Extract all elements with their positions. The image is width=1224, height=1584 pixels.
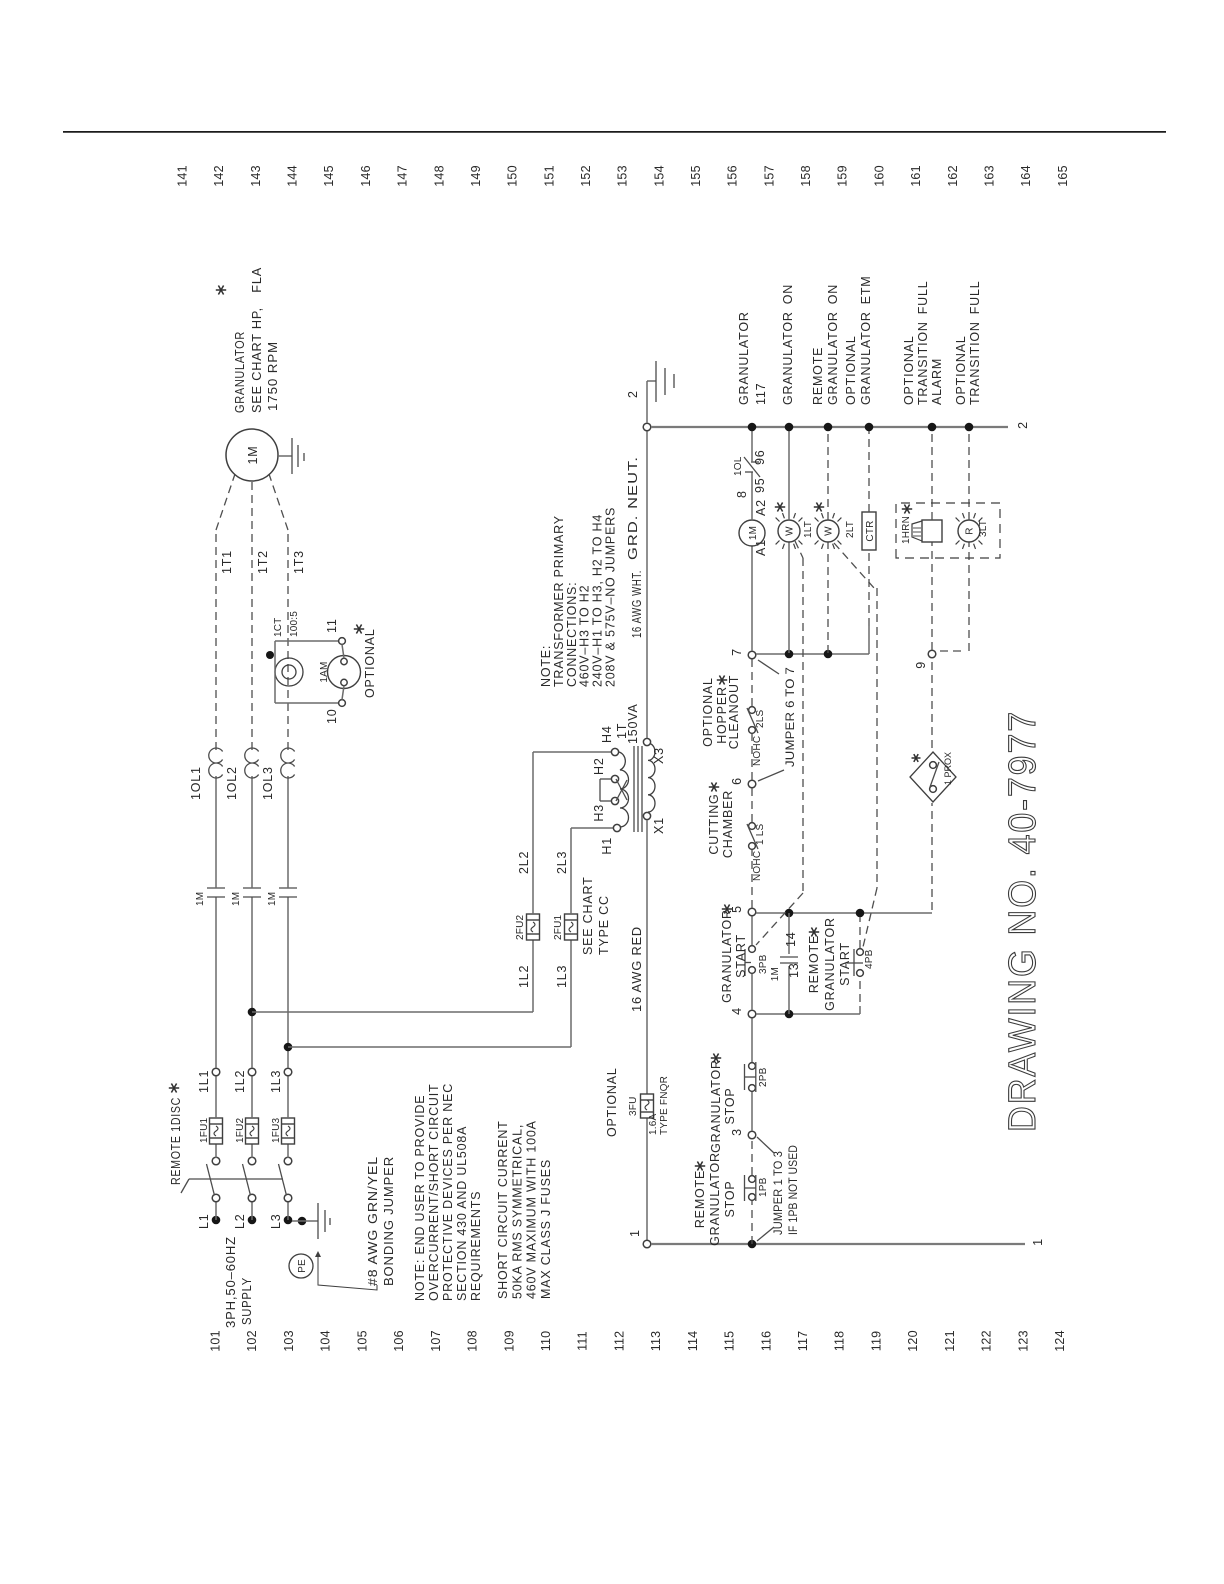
svg-text:2L2: 2L2 <box>517 851 531 874</box>
transformer 1T primary terminals H1 H3 H2 H4 <box>613 824 620 831</box>
note JUMPER 1 TO 3 IF 1PB NOT USED <box>757 1137 774 1153</box>
disconnect 1DISC pole L3 <box>284 1194 292 1202</box>
rail 2 <box>651 426 1008 428</box>
svg-text:W: W <box>824 526 835 536</box>
svg-text:115: 115 <box>723 1331 737 1352</box>
wire node4 to 3PB <box>751 974 753 1010</box>
svg-text:107: 107 <box>429 1330 443 1351</box>
fuse 1FU1 <box>210 1118 223 1144</box>
fuse 1FU3 <box>282 1118 295 1144</box>
svg-text:TRANSITION FULL: TRANSITION FULL <box>968 280 982 405</box>
svg-text:START: START <box>734 934 748 978</box>
horn 1HRN <box>922 520 942 542</box>
svg-text:123: 123 <box>1016 1330 1030 1351</box>
wire CT secondary bottom <box>274 686 276 703</box>
current transformer 1CT <box>275 658 303 686</box>
svg-text:NOTE: END USER TO PROVIDE: NOTE: END USER TO PROVIDE <box>413 1095 427 1301</box>
note JUMPER 6 TO 7 <box>758 660 779 674</box>
svg-text:OPTIONAL: OPTIONAL <box>844 335 858 405</box>
svg-text:1L2: 1L2 <box>517 965 531 988</box>
svg-text:146: 146 <box>359 165 373 186</box>
wire fuse to 1L1 <box>215 1076 217 1118</box>
svg-text:159: 159 <box>836 165 850 186</box>
wire 4PB branch <box>859 1006 861 1014</box>
svg-text:164: 164 <box>1019 165 1033 186</box>
svg-text:TRANSITION FULL: TRANSITION FULL <box>916 280 930 405</box>
svg-text:160: 160 <box>872 165 886 186</box>
junction rail2/horn <box>928 423 937 432</box>
svg-text:117: 117 <box>796 1331 810 1352</box>
svg-text:#8 AWG GRN/YEL: #8 AWG GRN/YEL <box>366 1156 380 1286</box>
junction bus/2LT <box>824 650 833 659</box>
svg-text:1M: 1M <box>770 967 781 981</box>
pushbutton 1PB remote granulator stop <box>749 1194 756 1201</box>
svg-text:1T1: 1T1 <box>220 550 234 574</box>
svg-text:151: 151 <box>542 165 556 186</box>
svg-text:1: 1 <box>1031 1238 1045 1246</box>
svg-text:1FU2: 1FU2 <box>235 1118 246 1143</box>
svg-text:BONDING JUMPER: BONDING JUMPER <box>382 1156 396 1286</box>
svg-text:1 PROX: 1 PROX <box>943 752 953 785</box>
svg-text:1750 RPM: 1750 RPM <box>266 341 280 411</box>
svg-text:117: 117 <box>754 383 768 405</box>
pilot light 2LT (W) <box>815 513 842 549</box>
svg-text:OVERCURRENT/SHORT CIRCUIT: OVERCURRENT/SHORT CIRCUIT <box>427 1084 441 1301</box>
wire tap 1L3 down <box>288 1046 571 1048</box>
disconnect 1DISC pole L1 <box>212 1194 220 1202</box>
svg-text:SUPPLY: SUPPLY <box>240 1277 254 1325</box>
wire rung 2LT (dashed) <box>827 542 829 653</box>
wire phase L1 entry <box>212 1216 221 1225</box>
wire fuse to 1L3 <box>287 1076 289 1118</box>
svg-text:114: 114 <box>686 1331 700 1352</box>
svg-text:GRANULATOR ON: GRANULATOR ON <box>781 284 795 405</box>
node 1L3 <box>284 1068 292 1076</box>
wire L1 to fuse <box>215 1144 217 1158</box>
contactor contact 1M (L3) <box>279 896 297 898</box>
node 3 <box>748 1131 756 1139</box>
fuse 1FU2 <box>246 1118 259 1144</box>
svg-text:1OL1: 1OL1 <box>189 766 203 800</box>
svg-text:TRANSFORMER PRIMARY: TRANSFORMER PRIMARY <box>552 515 566 687</box>
svg-text:NOHC: NOHC <box>752 736 763 766</box>
wire 1L3 to contactor <box>287 897 289 1068</box>
wire 2LT alternate (dashed) <box>834 543 874 588</box>
wire node7 to coil <box>751 546 753 651</box>
limit switch 2LS hopper cleanout NOHC <box>749 727 756 734</box>
wire fuse to 1L2 <box>251 1076 253 1118</box>
pushbutton 3PB granulator start <box>749 967 756 974</box>
svg-text:1M: 1M <box>195 892 206 906</box>
junction rail1 / rung <box>748 1240 757 1249</box>
svg-text:2FU2: 2FU2 <box>515 915 526 940</box>
ground (bonding earth) <box>317 1203 319 1239</box>
svg-text:JUMPER 1 TO 3: JUMPER 1 TO 3 <box>773 1151 785 1235</box>
svg-text:REQUIREMENTS: REQUIREMENTS <box>469 1191 483 1301</box>
svg-text:50KA RMS SYMMETRICAL,: 50KA RMS SYMMETRICAL, <box>510 1124 524 1299</box>
pushbutton 4PB remote granulator start <box>857 970 864 977</box>
node grd (rail 2 top) <box>643 423 651 431</box>
svg-text:1M: 1M <box>246 446 260 465</box>
wire node-4 bus <box>756 1013 860 1015</box>
svg-text:SHORT CIRCUIT CURRENT: SHORT CIRCUIT CURRENT <box>496 1120 510 1299</box>
svg-text:1FU1: 1FU1 <box>199 1118 210 1143</box>
svg-text:161: 161 <box>909 165 923 186</box>
svg-text:PE: PE <box>297 1259 308 1273</box>
svg-text:GRANULATOR: GRANULATOR <box>233 331 247 413</box>
svg-text:L3: L3 <box>269 1213 283 1229</box>
pilot light 3LT (R) <box>956 513 983 549</box>
svg-text:155: 155 <box>689 165 703 186</box>
wire rung 1LT <box>788 542 790 653</box>
svg-text:16 AWG WHT.: 16 AWG WHT. <box>630 570 644 638</box>
svg-text:4: 4 <box>730 1007 744 1015</box>
node 6 <box>748 780 756 788</box>
svg-text:2: 2 <box>1016 421 1030 429</box>
header rule <box>63 131 1166 132</box>
svg-text:OPTIONAL: OPTIONAL <box>954 335 968 405</box>
svg-text:NOHC: NOHC <box>752 851 763 881</box>
contactor coil 1M <box>739 520 765 546</box>
junction rail2/CTR <box>865 423 874 432</box>
wire rung horn (dashed) <box>931 542 933 650</box>
junction rail2/2LT <box>824 423 833 432</box>
svg-text:8: 8 <box>735 490 749 498</box>
svg-text:95: 95 <box>753 477 767 493</box>
svg-text:154: 154 <box>652 165 666 186</box>
terminal X3 <box>643 738 650 745</box>
svg-text:240V–H1 TO H3, H2 TO H4: 240V–H1 TO H3, H2 TO H4 <box>591 514 605 687</box>
disconnect 1DISC pole L2 <box>248 1194 256 1202</box>
elapsed time meter CTR <box>862 512 876 550</box>
wire 1L1 to contactor <box>215 897 217 1068</box>
svg-text:460V–H3 TO H2: 460V–H3 TO H2 <box>578 585 592 687</box>
svg-text:GRANULATOR: GRANULATOR <box>737 311 751 405</box>
svg-text:MAX CLASS J FUSES: MAX CLASS J FUSES <box>539 1159 553 1299</box>
contactor contact 1M (L2) <box>243 896 261 898</box>
svg-text:2PB: 2PB <box>758 1067 769 1087</box>
wire tap 1L2 down <box>252 1011 533 1013</box>
alternate jumper cross lines <box>616 779 627 800</box>
motor 1M <box>226 429 278 481</box>
wire bonding jumper <box>292 1220 318 1222</box>
svg-text:REMOTE: REMOTE <box>811 347 825 405</box>
wire 2L3 <box>570 828 572 914</box>
wire rung 3LT (dashed) <box>940 650 966 652</box>
terminal PE <box>289 1254 313 1278</box>
border rule (right edge of drawing) <box>63 131 1166 133</box>
svg-text:A2: A2 <box>754 499 768 516</box>
svg-text:GRANULATOR ETM: GRANULATOR ETM <box>859 276 873 406</box>
junction bus/aux <box>785 909 794 918</box>
svg-text:3LT: 3LT <box>978 520 989 537</box>
ground (motor frame earth) <box>278 455 292 457</box>
junction on L2 <box>248 1008 257 1017</box>
svg-text:1: 1 <box>628 1229 642 1237</box>
svg-text:CTR: CTR <box>865 520 876 541</box>
svg-text:3FU: 3FU <box>628 1097 639 1117</box>
svg-text:3: 3 <box>730 1128 744 1136</box>
pilot light 1LT (W) <box>776 513 803 549</box>
svg-text:108: 108 <box>466 1330 480 1351</box>
svg-text:TYPE FNQR: TYPE FNQR <box>659 1076 670 1135</box>
svg-text:104: 104 <box>319 1330 333 1351</box>
transformer primary winding <box>619 752 629 827</box>
svg-text:149: 149 <box>469 165 483 186</box>
svg-text:4PB: 4PB <box>864 949 875 969</box>
svg-text:157: 157 <box>762 165 776 186</box>
svg-text:H2: H2 <box>592 757 606 775</box>
svg-text:IF 1PB NOT USED: IF 1PB NOT USED <box>788 1145 800 1235</box>
wire node-5 bus <box>756 912 932 914</box>
svg-text:152: 152 <box>579 165 593 186</box>
svg-text:H3: H3 <box>592 804 606 822</box>
svg-text:TYPE CC: TYPE CC <box>597 895 611 955</box>
svg-text:101: 101 <box>209 1330 223 1351</box>
svg-text:L1: L1 <box>197 1213 211 1229</box>
svg-text:1L3: 1L3 <box>269 1070 283 1093</box>
svg-text:1AM: 1AM <box>319 661 330 682</box>
svg-text:145: 145 <box>322 165 336 186</box>
wire node3 to 2PB <box>751 1091 753 1131</box>
bonding tap junction <box>298 1217 307 1226</box>
svg-text:START: START <box>838 942 852 986</box>
terminal 11 <box>339 638 346 645</box>
transformer secondary winding X1-X3 <box>648 743 655 812</box>
node 1L1 <box>212 1068 220 1076</box>
svg-text:2: 2 <box>626 390 640 398</box>
svg-text:PROTECTIVE DEVICES PER NEC: PROTECTIVE DEVICES PER NEC <box>441 1083 455 1301</box>
svg-text:1.6A: 1.6A <box>648 1113 659 1135</box>
svg-text:3PH,50–60HZ: 3PH,50–60HZ <box>224 1236 238 1328</box>
fuse 2FU1 <box>565 914 578 940</box>
svg-text:NOTE:: NOTE: <box>539 645 553 687</box>
svg-text:5: 5 <box>730 905 744 913</box>
contactor contact 1M (L1) <box>207 896 225 898</box>
wire X3 white to rail 2 <box>646 431 648 738</box>
svg-text:REMOTE: REMOTE <box>693 1170 707 1228</box>
wire phase L2 entry <box>248 1216 257 1225</box>
junction bus/1LT <box>785 650 794 659</box>
svg-text:1OL3: 1OL3 <box>261 766 275 800</box>
wire node6 to 2LS (dashed) <box>751 734 753 780</box>
svg-text:9: 9 <box>914 661 928 669</box>
svg-text:1T3: 1T3 <box>292 550 306 574</box>
svg-text:120: 120 <box>906 1330 920 1351</box>
jumper H3 to H2 <box>600 800 611 802</box>
aux contact 1M 13-14 <box>780 962 798 964</box>
svg-text:1M: 1M <box>231 892 242 906</box>
junction rail2/1LT <box>785 423 794 432</box>
svg-text:OPTIONAL: OPTIONAL <box>701 677 715 747</box>
rail 1 <box>651 1243 1025 1245</box>
disconnect tie bar <box>189 1178 283 1180</box>
svg-text:1LT: 1LT <box>803 521 814 538</box>
svg-text:113: 113 <box>649 1331 663 1352</box>
svg-text:1CT: 1CT <box>273 618 284 638</box>
svg-text:GRD. NEUT.: GRD. NEUT. <box>626 456 640 560</box>
proximity switch 1PROX <box>931 803 933 910</box>
svg-text:GRANULATOR: GRANULATOR <box>708 1152 722 1246</box>
svg-text:6: 6 <box>730 777 744 785</box>
svg-text:X1: X1 <box>652 817 666 834</box>
svg-text:460V MAXIMUM WITH 100A: 460V MAXIMUM WITH 100A <box>525 1120 539 1299</box>
svg-text:163: 163 <box>982 165 996 186</box>
svg-text:H1: H1 <box>600 837 614 855</box>
svg-text:1FU3: 1FU3 <box>271 1118 282 1143</box>
svg-text:SEE CHART: SEE CHART <box>581 876 595 955</box>
svg-text:CLEANOUT: CLEANOUT <box>727 675 741 749</box>
svg-text:1L2: 1L2 <box>233 1070 247 1093</box>
wire 1L2 to contactor <box>251 897 253 1068</box>
svg-text:14: 14 <box>784 931 798 947</box>
wire X1 red to rail 1 <box>646 1118 648 1240</box>
svg-text:109: 109 <box>502 1330 516 1351</box>
svg-text:111: 111 <box>576 1331 590 1351</box>
svg-text:GRANULATOR ON: GRANULATOR ON <box>826 284 840 405</box>
node 1 (rail 1 top) <box>643 1240 651 1248</box>
wire CT secondary top <box>274 641 276 686</box>
svg-text:10: 10 <box>325 708 339 724</box>
svg-text:REMOTE: REMOTE <box>807 935 821 993</box>
svg-text:X3: X3 <box>652 747 666 764</box>
svg-text:158: 158 <box>799 165 813 186</box>
wire aux branch <box>788 966 790 1014</box>
svg-text:144: 144 <box>286 165 300 186</box>
svg-text:2L3: 2L3 <box>555 851 569 874</box>
wire 1L2 horizontal <box>532 940 534 1012</box>
junction rail2 / rung A <box>748 423 757 432</box>
wire 2L2 <box>532 752 534 914</box>
svg-text:L2: L2 <box>233 1213 247 1229</box>
svg-text:3PB: 3PB <box>758 954 769 974</box>
overload contact 1OL 95-96 <box>745 471 753 473</box>
svg-text:2LS: 2LS <box>755 709 766 728</box>
wire phase L3 entry <box>284 1216 293 1225</box>
svg-text:147: 147 <box>396 165 410 186</box>
svg-text:124: 124 <box>1053 1330 1067 1351</box>
svg-text:CUTTING: CUTTING <box>707 793 721 854</box>
svg-text:122: 122 <box>980 1330 994 1351</box>
svg-text:7: 7 <box>730 648 744 656</box>
svg-text:1L1: 1L1 <box>197 1070 211 1093</box>
svg-text:2LT: 2LT <box>845 521 856 538</box>
svg-text:11: 11 <box>325 618 339 633</box>
svg-text:1PB: 1PB <box>758 1177 769 1197</box>
wire rung CTR (dashed) <box>868 626 870 642</box>
svg-text:118: 118 <box>833 1331 847 1352</box>
svg-text:106: 106 <box>392 1330 406 1351</box>
wire node-7 bus <box>756 653 869 655</box>
svg-text:CONNECTIONS:: CONNECTIONS: <box>565 582 579 687</box>
wire 1T1 motor lead (dashed) <box>215 530 217 750</box>
junction bus/4PB <box>856 909 865 918</box>
svg-text:H4: H4 <box>600 725 614 743</box>
polarity dot for 1CT <box>266 651 274 659</box>
junction bus/aux13 <box>785 1010 794 1019</box>
svg-text:SEE CHART HP, FLA: SEE CHART HP, FLA <box>250 267 264 413</box>
svg-text:208V & 575V–NO JUMPERS: 208V & 575V–NO JUMPERS <box>604 507 618 687</box>
svg-text:150: 150 <box>506 165 520 186</box>
svg-text:OPTIONAL: OPTIONAL <box>605 1067 619 1137</box>
svg-text:R: R <box>965 527 976 534</box>
overload heater 1OL2 <box>245 748 259 778</box>
wire to overload <box>251 776 253 888</box>
node 4 <box>748 1010 756 1018</box>
svg-text:16 AWG RED: 16 AWG RED <box>630 926 644 1012</box>
svg-text:162: 162 <box>946 165 960 186</box>
svg-text:OPTIONAL: OPTIONAL <box>902 335 916 405</box>
svg-text:ALARM: ALARM <box>930 358 944 405</box>
svg-text:OPTIONAL: OPTIONAL <box>363 628 377 698</box>
svg-text:GRANULATOR: GRANULATOR <box>720 909 734 1003</box>
node 9 <box>928 650 936 658</box>
svg-text:143: 143 <box>249 165 263 186</box>
svg-text:1HRN: 1HRN <box>901 516 912 544</box>
svg-text:112: 112 <box>612 1331 626 1352</box>
transformer core <box>633 746 635 832</box>
ammeter 1AM <box>328 656 361 689</box>
svg-text:13: 13 <box>787 962 801 978</box>
svg-text:1M: 1M <box>267 892 278 906</box>
overload heater 1OL3 <box>281 748 295 778</box>
wire node5 to 1LS (dashed) <box>751 850 753 908</box>
node 7 <box>748 651 756 659</box>
wire L3 to fuse <box>287 1144 289 1158</box>
svg-text:102: 102 <box>245 1330 259 1351</box>
wire to overload <box>215 776 217 888</box>
svg-text:1L3: 1L3 <box>555 965 569 988</box>
terminal 10 <box>339 700 346 707</box>
svg-text:DRAWING NO. 40-7977: DRAWING NO. 40-7977 <box>1002 710 1044 1132</box>
wire 1L3 horizontal <box>570 940 572 1047</box>
svg-text:165: 165 <box>1056 165 1070 186</box>
svg-text:1 LS: 1 LS <box>755 823 766 845</box>
svg-text:105: 105 <box>355 1330 369 1351</box>
svg-text:141: 141 <box>176 165 190 186</box>
svg-text:1OL2: 1OL2 <box>225 766 239 800</box>
svg-text:156: 156 <box>726 165 740 186</box>
leader to bonding note <box>318 1254 377 1290</box>
svg-text:116: 116 <box>759 1331 773 1352</box>
wire 1LT alternate (dashed) <box>795 541 803 558</box>
fuse 2FU2 <box>527 914 540 940</box>
optional alarm enclosure (dashed box) <box>896 503 1000 558</box>
svg-text:150VA: 150VA <box>626 703 640 744</box>
svg-text:103: 103 <box>282 1330 296 1351</box>
terminal X1 <box>643 812 650 819</box>
wire rung A dashed (1PB remote stop branch) <box>751 1201 753 1244</box>
junction on L3 <box>284 1043 293 1052</box>
svg-text:STOP: STOP <box>723 1180 737 1217</box>
svg-text:110: 110 <box>539 1331 553 1352</box>
svg-text:SECTION 430 AND UL508A: SECTION 430 AND UL508A <box>455 1126 469 1301</box>
wire coil to OL contact <box>751 472 753 520</box>
pushbutton 2PB granulator stop <box>749 1085 756 1092</box>
svg-text:W: W <box>785 526 796 536</box>
svg-text:142: 142 <box>212 165 226 186</box>
wire OL to rail 2 <box>751 427 753 462</box>
overload heater 1OL1 <box>209 748 223 778</box>
svg-text:2FU1: 2FU1 <box>553 915 564 940</box>
svg-text:153: 153 <box>616 165 630 186</box>
svg-text:STOP: STOP <box>723 1087 737 1124</box>
wire 1T2 motor lead (dashed) <box>251 481 253 750</box>
svg-text:A1: A1 <box>754 539 768 556</box>
svg-text:CHAMBER: CHAMBER <box>721 790 735 858</box>
svg-text:GRANULATOR: GRANULATOR <box>709 1059 723 1153</box>
node 5 <box>748 908 756 916</box>
